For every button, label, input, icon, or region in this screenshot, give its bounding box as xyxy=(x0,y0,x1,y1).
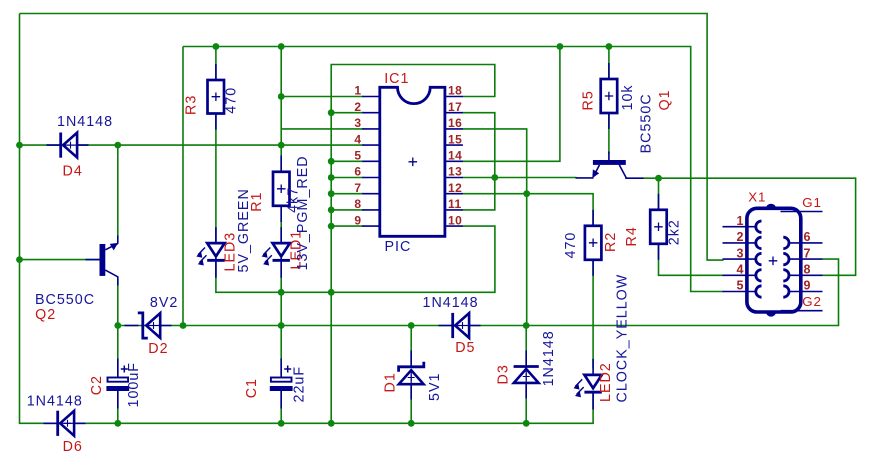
wire R3 to LED3 xyxy=(215,114,217,243)
svg-text:R2: R2 xyxy=(603,232,619,252)
node pin1 xyxy=(278,93,285,100)
wire IC pin5 xyxy=(331,160,363,162)
svg-text:BC550C: BC550C xyxy=(35,292,95,308)
X1 pin stubs right 6-9 + G1 + G2 xyxy=(781,212,823,311)
svg-text:22uF: 22uF xyxy=(292,366,308,403)
svg-text:G1: G1 xyxy=(802,195,822,210)
svg-text:17: 17 xyxy=(448,100,462,114)
node pin13 xyxy=(491,174,498,181)
svg-text:G2: G2 xyxy=(802,294,822,309)
svg-text:9: 9 xyxy=(354,213,361,227)
node pin6 xyxy=(328,174,335,181)
wire R5 to Q1 base xyxy=(608,114,610,154)
svg-text:C1: C1 xyxy=(244,378,260,398)
resistor R5 xyxy=(601,63,618,129)
wire top rail y=13 to X1 pin3 xyxy=(20,14,724,261)
wire Q2 base xyxy=(20,259,100,261)
wire D1 leads xyxy=(410,326,412,365)
svg-text:LED2: LED2 xyxy=(598,362,614,402)
node R1 top xyxy=(278,142,285,149)
svg-text:8: 8 xyxy=(804,263,811,277)
IC pin numbers left xyxy=(354,84,361,228)
svg-text:PIC: PIC xyxy=(385,239,412,255)
X1 pin stubs left 1-5 xyxy=(723,227,757,292)
wire IC pin3 xyxy=(281,128,363,130)
node C2 bottom xyxy=(114,420,121,427)
node D3 bottom xyxy=(523,420,530,427)
resistor R3 xyxy=(208,64,225,130)
X1 pin numbers left xyxy=(737,214,744,293)
svg-text:100uF: 100uF xyxy=(126,362,142,408)
node pin10 row xyxy=(328,289,335,296)
wire R5 top lead xyxy=(608,47,610,79)
zener diode D2 xyxy=(125,313,172,338)
node D3 top xyxy=(523,322,530,329)
wire pin18 loop xyxy=(331,65,495,424)
svg-text:1: 1 xyxy=(354,84,361,98)
svg-text:2k2: 2k2 xyxy=(667,219,683,245)
node pin9 xyxy=(328,223,335,230)
svg-text:IC1: IC1 xyxy=(384,71,409,87)
svg-text:14: 14 xyxy=(448,149,462,163)
wire R4 to X1 pin4 xyxy=(659,244,724,275)
svg-text:12: 12 xyxy=(448,181,462,195)
svg-text:470: 470 xyxy=(224,87,240,114)
svg-text:1N4148: 1N4148 xyxy=(27,394,83,410)
svg-text:5V_GREEN: 5V_GREEN xyxy=(236,188,252,272)
node R5 top xyxy=(606,43,613,50)
wire upper bus y=46 to X1 pin5 xyxy=(183,47,724,292)
wire pin14 to upper bus xyxy=(463,47,560,162)
svg-text:R3: R3 xyxy=(184,95,200,115)
wire C1 bottom lead xyxy=(280,391,282,423)
svg-text:BC550C: BC550C xyxy=(639,93,655,153)
zener diode D1 xyxy=(399,351,424,400)
diode D4 xyxy=(47,133,89,158)
wire pin12 to R2 top xyxy=(463,194,594,226)
wire LED3 bottom to pin10 riser xyxy=(216,226,495,292)
svg-text:4: 4 xyxy=(354,132,361,146)
node LED1 bottom xyxy=(278,289,285,296)
wire pin13 to Q1 emitter xyxy=(463,177,577,179)
svg-text:CLOCK_YELLOW: CLOCK_YELLOW xyxy=(615,274,631,403)
wire IC pin9 xyxy=(331,225,363,227)
svg-text:10: 10 xyxy=(448,213,462,227)
wire IC pin7 xyxy=(331,193,363,195)
node C1 top xyxy=(278,322,285,329)
svg-text:13: 13 xyxy=(448,165,462,179)
IC pin numbers right xyxy=(448,84,462,228)
X1 contacts right xyxy=(783,237,789,297)
wire LED1 bottom to C1 xyxy=(280,262,282,375)
wire R1 column from bus to R1 xyxy=(280,47,282,172)
svg-text:7: 7 xyxy=(354,181,361,195)
svg-text:10k: 10k xyxy=(620,84,636,110)
wire R2 to LED2 xyxy=(592,260,594,368)
LED1 xyxy=(262,227,290,278)
svg-text:15: 15 xyxy=(448,132,462,146)
svg-text:D4: D4 xyxy=(63,163,83,179)
wire Q2 collector to mid bus xyxy=(117,279,119,326)
node pin7 xyxy=(328,190,335,197)
resistor R4 xyxy=(650,194,667,260)
LED2 xyxy=(574,359,602,410)
node pin5 xyxy=(328,158,335,165)
node Q1 collector / R4 xyxy=(655,175,662,182)
node D2 right xyxy=(180,322,187,329)
svg-text:18: 18 xyxy=(448,84,462,98)
svg-text:1N4148: 1N4148 xyxy=(541,330,557,386)
diode D5 xyxy=(439,313,481,338)
svg-text:4: 4 xyxy=(737,263,744,277)
capacitor C2 xyxy=(106,359,129,409)
svg-text:1: 1 xyxy=(737,214,744,228)
svg-text:D3: D3 xyxy=(496,364,512,384)
svg-text:6: 6 xyxy=(354,165,361,179)
diode D3 xyxy=(514,351,539,399)
svg-text:7: 7 xyxy=(804,246,811,260)
wire R3 top lead xyxy=(215,47,217,81)
svg-text:16: 16 xyxy=(448,116,462,130)
svg-text:Q1: Q1 xyxy=(657,89,673,110)
svg-text:D5: D5 xyxy=(455,340,475,356)
wire R4 top lead xyxy=(658,178,660,209)
IC1 pin stubs right 18-10 xyxy=(445,97,463,227)
svg-text:3: 3 xyxy=(737,246,744,260)
svg-text:Q2: Q2 xyxy=(35,307,56,323)
svg-text:1N4148: 1N4148 xyxy=(57,114,113,130)
node pin2 xyxy=(328,109,335,116)
capacitor C1 xyxy=(270,359,293,409)
svg-text:3: 3 xyxy=(354,116,361,130)
node pin14 riser top xyxy=(557,43,564,50)
svg-text:11: 11 xyxy=(448,197,462,211)
transistor Q2 xyxy=(86,236,119,286)
svg-text:D1: D1 xyxy=(383,372,399,392)
node D1 top xyxy=(408,322,415,329)
svg-text:9: 9 xyxy=(804,279,811,293)
wire Q1 collector to X1 pin8 xyxy=(643,178,856,275)
svg-text:2: 2 xyxy=(354,100,361,114)
svg-text:D6: D6 xyxy=(63,439,83,455)
svg-text:R4: R4 xyxy=(624,226,640,246)
svg-text:5: 5 xyxy=(737,279,744,293)
wire pin16 down to mid bus xyxy=(463,129,527,326)
node pin8 xyxy=(328,207,335,214)
node C1 bottom xyxy=(278,420,285,427)
svg-text:6: 6 xyxy=(804,230,811,244)
wire x=182.5 vertical xyxy=(182,47,184,326)
wire D3 leads xyxy=(525,326,527,365)
wire C2 leads xyxy=(117,326,119,375)
wire IC pin6 xyxy=(331,177,363,179)
wire IC pin1 xyxy=(281,96,363,98)
svg-text:8: 8 xyxy=(354,197,361,211)
wire IC pin8 xyxy=(331,209,363,211)
node Q2 collector bus xyxy=(114,322,121,329)
svg-text:D2: D2 xyxy=(148,341,168,357)
node D1 bottom xyxy=(408,420,415,427)
node D4 left xyxy=(16,142,23,149)
svg-text:8V2: 8V2 xyxy=(150,295,178,311)
node x330 bottom xyxy=(328,420,335,427)
wire IC pin2 xyxy=(331,112,363,114)
svg-text:13V_PGM_RED: 13V_PGM_RED xyxy=(295,155,311,270)
wire left rail x=19 + bottom bus y=422.8 + LED2 riser xyxy=(20,14,594,424)
node Q2 base left xyxy=(16,256,23,263)
diode D6 xyxy=(44,411,86,436)
op-amp/IC U1 body (PIC) xyxy=(380,87,445,236)
LED3 xyxy=(196,227,224,278)
svg-text:2: 2 xyxy=(737,230,744,244)
svg-text:R5: R5 xyxy=(581,90,597,110)
node R1 column top xyxy=(278,43,285,50)
svg-text:X1: X1 xyxy=(748,190,766,205)
X1 contacts left xyxy=(756,221,762,297)
wire pin17 to pin11 xyxy=(463,113,495,210)
IC1 pin stubs left 1-9 xyxy=(362,97,380,227)
wire mid bus y=325 to X1 pin7 xyxy=(118,259,839,325)
resistor R2 xyxy=(585,210,602,276)
node Q2 emitter top xyxy=(114,142,121,149)
wire Q2 emitter to D4 row xyxy=(117,145,119,236)
resistor R1 xyxy=(273,156,290,223)
svg-text:470: 470 xyxy=(563,232,579,259)
node R3 top xyxy=(213,43,220,50)
node pin12 xyxy=(523,190,530,197)
wire R1 to LED1 xyxy=(280,206,282,242)
X1 pin numbers right xyxy=(804,230,811,293)
svg-text:C2: C2 xyxy=(89,375,105,395)
connector X1 body xyxy=(747,204,801,317)
svg-text:1N4148: 1N4148 xyxy=(423,295,479,311)
transistor Q1 xyxy=(576,152,644,179)
svg-text:5: 5 xyxy=(354,149,361,163)
svg-text:5V1: 5V1 xyxy=(427,373,443,401)
wire D4 row y=144.6 to IC pin4 xyxy=(20,144,364,146)
